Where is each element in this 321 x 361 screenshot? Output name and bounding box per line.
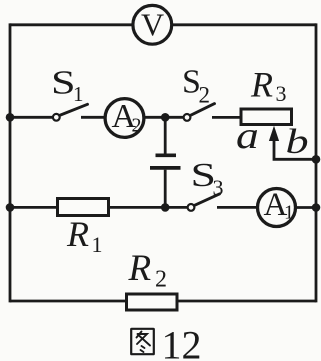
wire S3 contact to A1: [217, 206, 258, 209]
svg-text:R: R: [128, 248, 152, 289]
resistor R2: [127, 248, 178, 310]
svg-text:1: 1: [92, 232, 103, 257]
wire S2 contact to R3: [212, 116, 240, 119]
node J6 (A1 to right border): [312, 203, 321, 212]
caption glyph 图 (drawn): [131, 329, 154, 354]
wire bottom border: [10, 300, 316, 303]
wire A1 to right border: [295, 206, 316, 209]
svg-text:R: R: [250, 65, 273, 105]
svg-text:3: 3: [276, 81, 287, 106]
svg-text:2: 2: [199, 83, 211, 108]
svg-text:R: R: [66, 214, 89, 254]
wire rheostat wiper to right border: [274, 137, 316, 159]
wire A2 to node J1: [143, 116, 165, 119]
svg-text:1: 1: [284, 202, 294, 224]
node J1 (capacitor top junction): [161, 113, 170, 122]
ammeter A2: [105, 98, 144, 137]
switch S3: [188, 156, 224, 211]
wire capacitor top lead: [164, 117, 167, 153]
node J4 (left border, middle row): [6, 113, 15, 122]
wire R1 to node J2: [109, 206, 165, 209]
node J5 (left border, lower row): [6, 203, 15, 212]
resistor R1: [58, 199, 109, 258]
node J2 (capacitor bottom junction): [161, 203, 170, 212]
capacitor C top plate: [156, 153, 177, 157]
node J3 (wiper on right border): [312, 155, 321, 164]
svg-text:V: V: [141, 7, 164, 43]
wire node J2 to S3: [165, 206, 188, 209]
resistor R3 (rheostat body): [241, 65, 292, 125]
switch S1: [51, 63, 88, 120]
wire middle row left segment: [10, 116, 53, 119]
wire capacitor bottom lead: [164, 170, 167, 208]
svg-text:a: a: [236, 115, 259, 157]
svg-text:3: 3: [213, 175, 224, 200]
voltmeter V: [133, 5, 172, 44]
wire right border: [315, 23, 318, 302]
svg-text:b: b: [286, 121, 309, 160]
rheostat wiper arrow: [269, 126, 279, 141]
wire S1 contact to A2: [81, 116, 106, 119]
svg-text:12: 12: [162, 323, 202, 361]
svg-text:1: 1: [73, 82, 84, 106]
svg-text:2: 2: [155, 267, 167, 293]
capacitor C bottom plate: [150, 166, 181, 170]
wire node J1 to S2: [165, 116, 184, 119]
svg-text:2: 2: [132, 115, 142, 137]
switch S2: [182, 64, 215, 121]
wire lower row left segment: [10, 206, 57, 209]
svg-text:S: S: [51, 63, 76, 101]
wire top border: [10, 23, 316, 26]
wire left border: [9, 23, 12, 302]
ammeter A1: [258, 187, 296, 227]
